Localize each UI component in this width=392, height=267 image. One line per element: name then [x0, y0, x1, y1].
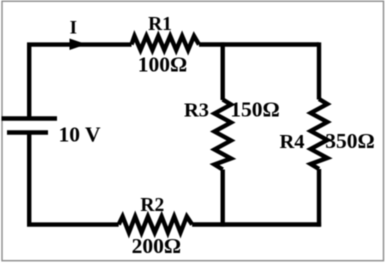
- wire: left rail upper (battery + terminal up to top-left corner, along top to R1): [29, 45, 131, 118]
- svg-text:100Ω: 100Ω: [138, 53, 187, 77]
- wire: left rail lower (battery - terminal down to bottom-left corner, along bottom to R2): [29, 133, 119, 225]
- junction: R3 branch meets bottom wire: [221, 222, 225, 226]
- resistor R4: [311, 99, 328, 169]
- wire: R3 lower branch down to bottom rail: [220, 170, 224, 225]
- svg-text:R2: R2: [140, 195, 164, 216]
- wire: R3 upper branch: [220, 45, 224, 101]
- svg-text:R1: R1: [148, 14, 172, 35]
- svg-text:I: I: [70, 17, 77, 38]
- resistor R1: [132, 36, 200, 50]
- svg-text:R3: R3: [184, 100, 209, 122]
- resistor R3: [215, 100, 232, 170]
- svg-text:R4: R4: [279, 131, 304, 153]
- junction: R3 branch meets top wire: [221, 42, 225, 46]
- wire: bottom rail from R2 to bottom-right corner: [192, 222, 321, 226]
- current arrow I: [70, 39, 87, 51]
- wire: top rail from R1 to top-right corner: [199, 42, 319, 46]
- svg-text:350Ω: 350Ω: [325, 129, 374, 153]
- wire: right rail lower (R4 down to bottom-right corner): [317, 169, 321, 227]
- resistor R2: [119, 217, 192, 233]
- svg-text:200Ω: 200Ω: [132, 234, 181, 258]
- battery 10 V: [2, 119, 58, 133]
- svg-text:10 V: 10 V: [58, 123, 100, 147]
- wire: right rail upper (top-right corner down to R4): [317, 42, 321, 99]
- svg-text:150Ω: 150Ω: [230, 98, 279, 122]
